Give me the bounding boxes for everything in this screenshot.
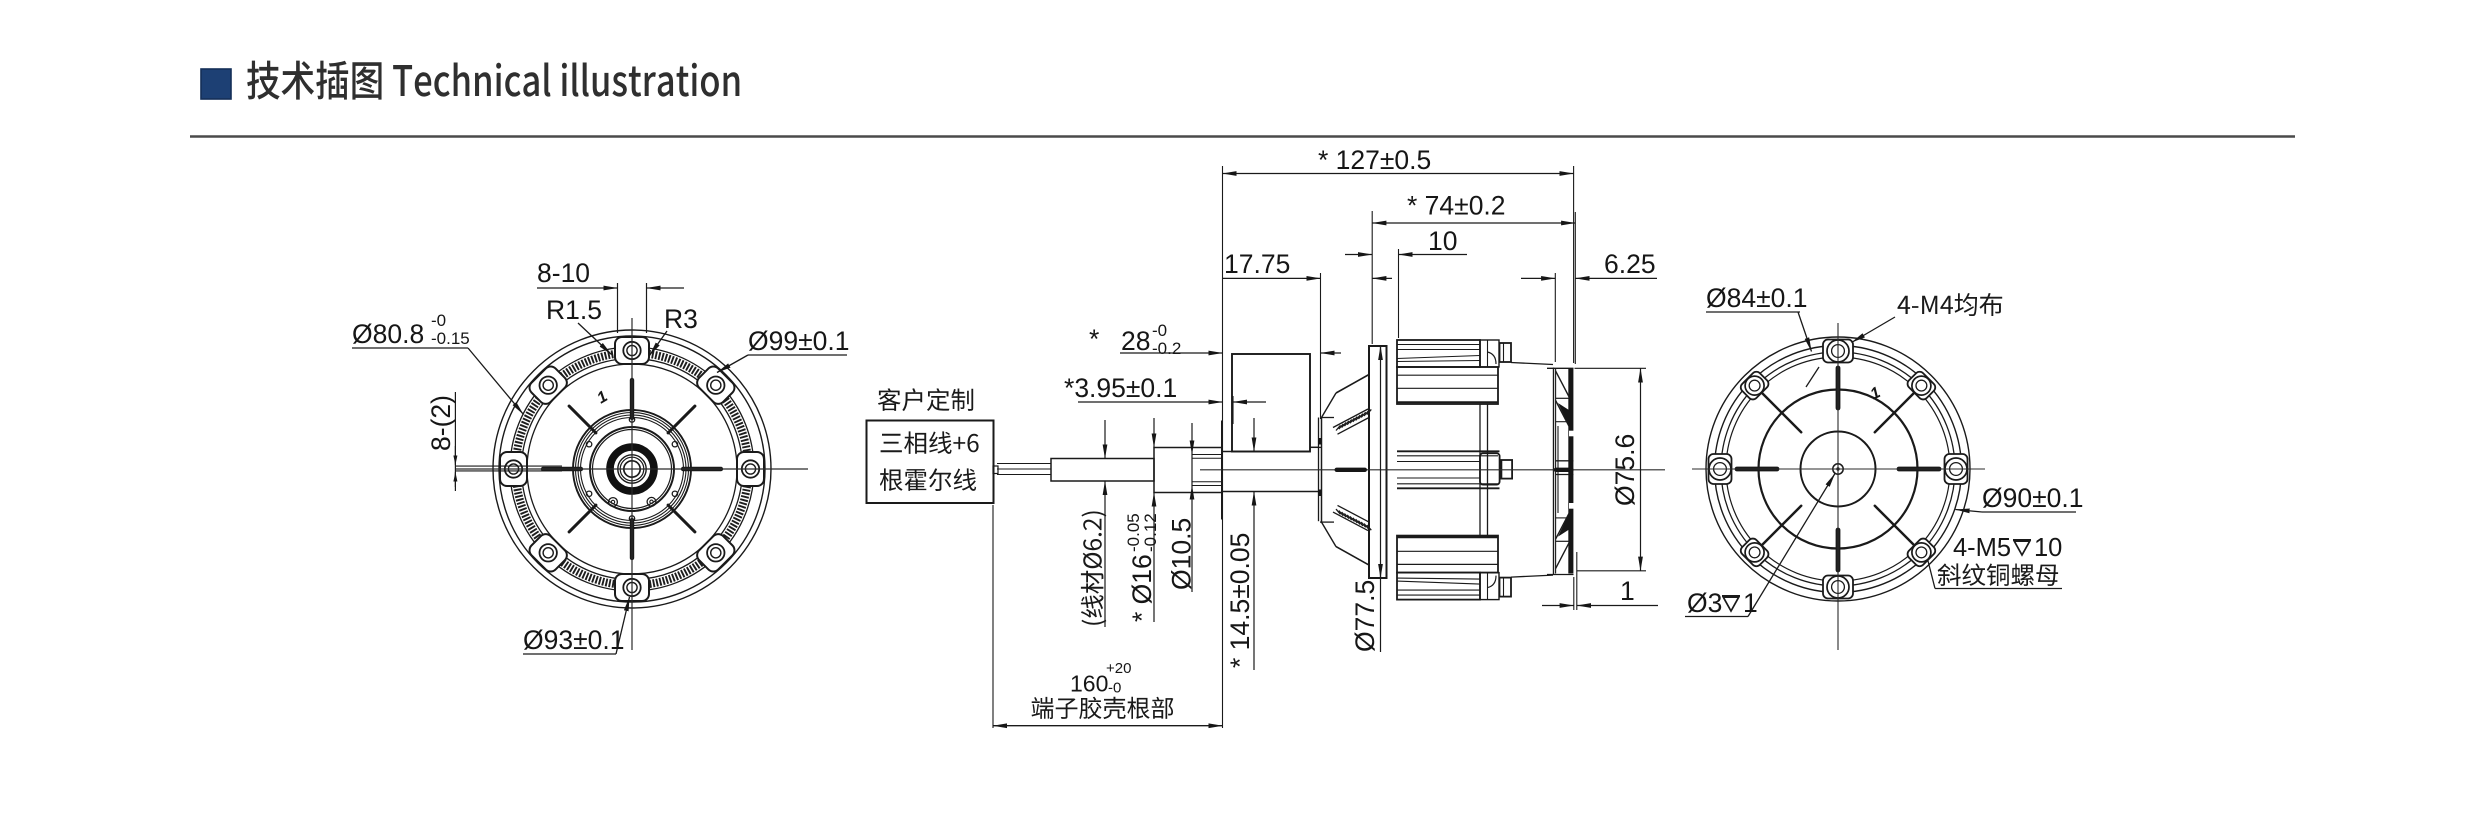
svg-text:Ø84±0.1: Ø84±0.1 — [1706, 283, 1807, 313]
rear screw S — [1823, 576, 1853, 599]
dim 17.75 line right — [1372, 277, 1392, 279]
hub coil band c2 — [576, 413, 689, 526]
bell upper hatched rib — [1333, 409, 1368, 428]
svg-text:Ø93±0.1: Ø93±0.1 — [523, 625, 624, 655]
hub coil band c4 — [581, 418, 684, 521]
front view horizontal centerline — [455, 468, 808, 470]
bell lower hatched rib — [1333, 512, 1368, 531]
shaft step vertical — [1309, 447, 1311, 451]
label 斜纹铜螺母 — [1938, 563, 2059, 586]
center bolt boss — [1480, 453, 1500, 484]
ext line x1573.6 — [1573, 166, 1575, 363]
dim wire dia lower — [1104, 481, 1106, 627]
bell shelf lower — [1320, 521, 1334, 523]
rear shelf lower 1 — [1556, 540, 1569, 542]
bell rib upper — [1336, 375, 1369, 394]
dim 3.95 line right — [1233, 401, 1266, 403]
ext line x993 — [992, 505, 994, 728]
svg-text:17.75: 17.75 — [1224, 249, 1290, 279]
svg-text:-0: -0 — [431, 311, 446, 330]
rotor stripe 4 — [1397, 477, 1480, 479]
bearing circle r12 — [620, 457, 644, 481]
stator top right section — [1480, 340, 1499, 367]
stator bottom right section — [1480, 573, 1499, 600]
dim 160 label 端子胶壳根部 — [1032, 697, 1174, 719]
rear center dot — [1836, 467, 1839, 470]
hub screw holes (6) — [672, 442, 677, 447]
svg-text:-0.2: -0.2 — [1152, 339, 1181, 358]
bell shelf upper — [1320, 417, 1334, 419]
svg-text:160: 160 — [1070, 671, 1108, 697]
front view vertical centerline — [631, 318, 633, 650]
dim 28 line right — [1321, 352, 1342, 354]
hub coil band outer — [573, 410, 691, 528]
svg-text:Ø10.5: Ø10.5 — [1167, 518, 1197, 590]
dim 8-10 ext right — [646, 283, 648, 333]
rear screw NE — [1905, 370, 1937, 402]
shaft bore circle — [624, 461, 640, 477]
rear view circle r117 — [1721, 352, 1955, 586]
dim Ø80.8 leader — [468, 348, 524, 415]
rear shelf lower 2 — [1556, 517, 1569, 519]
bearing circle r14 — [618, 455, 646, 483]
dim 1 line left — [1542, 605, 1574, 607]
dim wire dia text — [1081, 512, 1106, 625]
hub circle r42 — [590, 427, 674, 511]
svg-text:1: 1 — [1620, 576, 1635, 606]
mounting ear S — [615, 574, 649, 601]
title text — [247, 61, 739, 100]
wire 3 — [997, 474, 1051, 476]
rotor center bottom — [1397, 487, 1500, 489]
bearing box step — [1310, 446, 1319, 448]
dim 6.25 line right — [1575, 277, 1657, 279]
centerline thick dashes — [1335, 468, 1368, 472]
hub spokes — [683, 467, 721, 471]
pin hole right — [647, 497, 656, 506]
svg-text:*3.95±0.1: *3.95±0.1 — [1064, 373, 1177, 403]
label 4-M4均布 — [1898, 293, 2003, 316]
dim Ø3 leader — [1748, 474, 1835, 617]
rear can line — [1553, 368, 1555, 575]
ext line x1575.3 — [1574, 212, 1576, 364]
rotor bore top — [1397, 455, 1498, 457]
dim 28 line left — [1120, 352, 1223, 354]
mounting ear SE — [694, 531, 737, 574]
dim 6.25 line left — [1521, 277, 1555, 279]
dim Ø10.5 upper — [1191, 423, 1193, 455]
dim Ø75.6 ext bottom — [1577, 570, 1646, 572]
svg-text:* 127±0.5: * 127±0.5 — [1318, 145, 1431, 175]
label 客户定制 — [878, 388, 973, 411]
svg-text:R3: R3 — [664, 304, 698, 334]
stator bottom coil block — [1397, 573, 1480, 600]
dim 10 line right — [1399, 254, 1468, 256]
dim 3.95 ext — [1232, 396, 1234, 424]
label 斜纹铜螺母 underline — [1935, 588, 2062, 590]
thread section left edge — [1191, 455, 1193, 486]
bearing tube box — [1232, 354, 1310, 452]
dim 14.5 upper — [1253, 418, 1255, 452]
rear strut lower 1 — [1556, 543, 1569, 569]
svg-text:*: * — [1089, 324, 1099, 354]
dim Ø99±0.1 underline — [748, 354, 847, 356]
tie rod left — [1479, 404, 1481, 536]
svg-text:-0.15: -0.15 — [431, 329, 470, 348]
dim 1 line right — [1577, 605, 1658, 607]
svg-text:* Ø16: * Ø16 — [1127, 554, 1157, 622]
rear tube wall — [1557, 426, 1559, 513]
dim Ø16 lower — [1153, 493, 1155, 623]
stator top coil block — [1397, 340, 1480, 367]
center hub nub — [1501, 460, 1512, 479]
thread line top2 — [1192, 457, 1222, 459]
dim Ø93±0.1 leader — [616, 597, 630, 654]
dim Ø16 text — [1124, 513, 1160, 622]
label R3 leader — [650, 331, 668, 356]
dim Ø75.6 ext top — [1575, 367, 1647, 369]
rear view center hole — [1833, 464, 1843, 474]
svg-text:6.25: 6.25 — [1604, 249, 1656, 279]
label M5 leader — [1928, 559, 1936, 589]
front boss inner line — [1321, 418, 1323, 523]
can top edge — [1511, 363, 1553, 365]
svg-text:-0: -0 — [1108, 680, 1121, 697]
rear screw N — [1823, 340, 1853, 363]
shaft 14.5 top right — [1310, 446, 1322, 448]
wire 2 — [997, 468, 1051, 470]
dim 10 line left — [1345, 254, 1372, 256]
rotor bore bottom — [1397, 483, 1498, 485]
title bullet square — [201, 69, 231, 99]
mounting ear E — [737, 452, 764, 486]
svg-text:* 14.5±0.05: * 14.5±0.05 — [1225, 533, 1255, 668]
rear view bolt circle r112 — [1726, 357, 1950, 581]
dim Ø84±0.1 leader2 — [1806, 367, 1819, 387]
dim Ø84±0.1 underline — [1706, 311, 1800, 313]
rear screw SE — [1905, 536, 1937, 568]
dim 127 line — [1223, 173, 1574, 175]
rear shelf upper 1 — [1556, 397, 1569, 399]
dim Ø84±0.1 leader — [1798, 312, 1812, 352]
rear strut lower 2 — [1556, 514, 1569, 540]
dim Ø75.6 line — [1640, 368, 1642, 571]
bearing heavy ring — [610, 447, 654, 491]
dim 8-10 line left — [537, 287, 618, 289]
tie rod right — [1487, 404, 1489, 536]
rear screw W — [1709, 454, 1732, 484]
mounting ear SW — [527, 531, 570, 574]
cable jacket Ø6.2 — [1051, 459, 1154, 482]
dim 14.5 lower — [1253, 492, 1255, 671]
dim 1 ext right — [1576, 552, 1578, 610]
stator lamination bottom — [1397, 536, 1498, 573]
thread line bottom2 — [1192, 481, 1222, 483]
svg-text:Ø90±0.1: Ø90±0.1 — [1982, 483, 2083, 513]
thread line top — [1192, 454, 1222, 456]
dim Ø3 underline — [1685, 616, 1748, 618]
dim 74 line — [1372, 222, 1575, 224]
bottom terminal tab — [1500, 578, 1512, 597]
dim Ø93±0.1 underline — [523, 653, 616, 655]
rear can line2 — [1555, 369, 1557, 574]
hub circle r39.5 — [593, 430, 672, 509]
dim Ø10.5 lower — [1191, 486, 1193, 593]
customization box — [867, 421, 994, 504]
ext line x1320.5 — [1320, 273, 1322, 419]
mounting ear NW — [527, 364, 570, 407]
shaft stub top line — [455, 465, 562, 467]
depth symbol 2 — [1722, 596, 1740, 611]
rear hub top — [1556, 460, 1573, 462]
bell cone upper edge — [1322, 393, 1337, 418]
rear view horizontal centerline — [1692, 468, 1985, 470]
bell rib lower — [1336, 547, 1369, 566]
svg-text:28: 28 — [1121, 326, 1150, 356]
rear wedge lower — [1558, 514, 1569, 537]
can bottom edge — [1511, 575, 1553, 577]
svg-text:R1.5: R1.5 — [546, 295, 602, 325]
ext line x1222.5 — [1222, 166, 1224, 728]
bottom corner arc — [1488, 576, 1497, 588]
svg-text:Ø77.5: Ø77.5 — [1350, 580, 1380, 652]
svg-text:* 74±0.2: * 74±0.2 — [1407, 191, 1506, 221]
dim Ø90±0.1 leader — [1956, 510, 1983, 513]
dim 17.75 line left — [1222, 277, 1321, 279]
dim 8-(2) arrows — [454, 446, 456, 465]
svg-text:Ø3: Ø3 — [1687, 588, 1722, 618]
front view outer circle Ø99 — [493, 330, 771, 608]
dim 8-10 line right — [647, 287, 685, 289]
rear strut upper 2 — [1556, 401, 1569, 427]
rear inner wall line — [1568, 369, 1570, 574]
front boss outer line — [1318, 418, 1320, 522]
pin hole left — [609, 498, 618, 507]
dim 1 ext left — [1573, 577, 1575, 610]
top corner arc — [1488, 352, 1497, 364]
svg-text:8-10: 8-10 — [537, 258, 590, 288]
rear strut upper 1 — [1556, 371, 1569, 397]
shaft 14.5 top — [1222, 451, 1310, 453]
top terminal tab — [1500, 343, 1512, 362]
dim Ø77.5 line — [1380, 346, 1382, 352]
stator lamination top — [1397, 367, 1498, 404]
svg-text:Ø75.6: Ø75.6 — [1610, 434, 1640, 506]
svg-text:10: 10 — [2034, 534, 2062, 562]
front view knurled band — [516, 353, 749, 586]
wire connector — [993, 466, 998, 474]
rear screw SW — [1739, 536, 1771, 568]
svg-text:-0.12: -0.12 — [1141, 513, 1160, 552]
svg-text:Ø80.8: Ø80.8 — [352, 319, 424, 349]
svg-text:10: 10 — [1428, 226, 1457, 256]
box text line2 根霍尔线 — [880, 468, 976, 491]
dim Ø99±0.1 leader — [717, 355, 748, 373]
label 4-M4 leader — [1852, 317, 1896, 343]
rear wedge upper — [1558, 403, 1569, 426]
mounting ear N — [615, 337, 649, 364]
dim Ø80.8 underline — [352, 347, 468, 349]
boss rib ticks — [1318, 438, 1322, 445]
rear hub bottom — [1556, 474, 1573, 476]
rear view vertical centerline — [1837, 323, 1839, 650]
rear magnet wall (solid) — [1569, 369, 1573, 574]
rear top edge — [1547, 367, 1574, 369]
dim Ø90±0.1 underline — [1982, 511, 2076, 513]
ext line x1555.3 — [1554, 273, 1556, 362]
wire 1 — [997, 463, 1051, 465]
shaft Ø16 section — [1154, 448, 1222, 493]
hub coil band c3 — [578, 415, 686, 523]
svg-text:8-(2): 8-(2) — [426, 395, 456, 451]
dim 8-10 ext left — [617, 283, 619, 333]
front view inner flange circle — [527, 364, 737, 574]
rear view circle r123.5 — [1715, 346, 1962, 593]
rear bottom edge — [1547, 574, 1574, 576]
dim 160 line — [993, 725, 1223, 727]
shaft stub bottom line — [455, 470, 562, 472]
dim 8-(2) line — [454, 392, 456, 487]
front view band inner circle — [522, 359, 743, 580]
shaft 14.5 bottom — [1222, 491, 1322, 493]
dim 3.95 line — [1078, 401, 1223, 403]
svg-text:4-M5: 4-M5 — [1953, 534, 2011, 562]
rear view big circle r79.5 — [1759, 390, 1918, 549]
rear spokes — [1899, 467, 1939, 472]
rear screw E — [1945, 454, 1968, 484]
rear shelf upper 2 — [1556, 421, 1569, 423]
rotor center top — [1397, 450, 1500, 452]
rear screw NW — [1739, 370, 1771, 402]
box text line1 三相线+6 — [881, 431, 979, 454]
rotor stripe 3 — [1397, 461, 1480, 463]
front view circle r122 — [510, 347, 754, 591]
mounting ear NE — [694, 364, 737, 407]
mounting ear W — [500, 452, 527, 486]
dim wire dia upper — [1104, 420, 1106, 459]
front view circle r133 — [499, 336, 765, 602]
ext line x1372 — [1371, 211, 1373, 344]
dim Ø16 upper — [1153, 418, 1155, 448]
front boss face — [1221, 421, 1223, 520]
label R1.5 leader — [578, 323, 612, 355]
ext line x1398.5 — [1398, 249, 1400, 338]
bell cone lower edge — [1322, 522, 1337, 547]
front flange plate — [1369, 346, 1387, 578]
svg-text:+20: +20 — [1106, 660, 1131, 677]
thread line bottom — [1192, 485, 1222, 487]
depth symbol — [2013, 540, 2031, 555]
rear view mid circle r37.5 — [1801, 432, 1876, 507]
svg-text:-0: -0 — [1152, 321, 1167, 340]
rear view outer circle — [1706, 337, 1970, 601]
side view centerline — [1200, 469, 1665, 471]
svg-text:Ø99±0.1: Ø99±0.1 — [748, 326, 849, 356]
title rule — [190, 135, 2295, 137]
